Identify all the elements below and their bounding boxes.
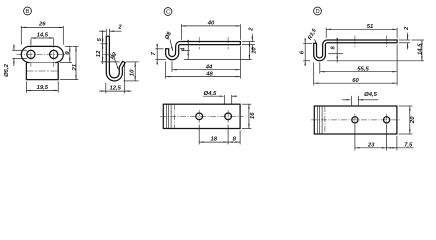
D dim 23 (355, 147, 387, 149)
C plan bend tangent line (173, 104, 175, 128)
B front hole centerline right (53, 42, 55, 67)
C dim 7 extension lines (155, 48, 163, 50)
svg-text:14,5: 14,5 (417, 43, 423, 55)
B front hole right (50, 50, 58, 58)
svg-text:26: 26 (38, 22, 46, 28)
svg-text:7,5: 7,5 (404, 142, 413, 148)
svg-text:10: 10 (129, 69, 135, 76)
D plan bend tangent line (324, 106, 326, 134)
C plan outline (163, 104, 240, 128)
B dim 26 extension lines (20, 26, 22, 45)
C dim 40 extension lines (181, 24, 183, 40)
C side hole centerline left (198, 37, 200, 49)
C plan hole right (225, 113, 232, 120)
svg-text:D: D (315, 9, 319, 15)
C plan hole left (196, 113, 203, 120)
D plan centerline (311, 119, 400, 121)
B front horizontal centerline (17, 53, 69, 55)
B front hole centerline left (30, 42, 32, 67)
D dim 55.5 (320, 71, 397, 73)
D dim 20 (409, 106, 411, 134)
D dim 6 (304, 43, 306, 61)
B front hole left (27, 50, 35, 58)
svg-text:B: B (26, 9, 30, 15)
svg-text:20: 20 (410, 116, 416, 124)
D dim 60 extension line (313, 62, 315, 85)
D side hole centerline left (354, 36, 356, 47)
D label O4.5 (342, 99, 348, 101)
B dim 19.5 extension lines (25, 81, 27, 92)
svg-text:Ø4,5: Ø4,5 (364, 92, 377, 98)
C dim 16 (248, 104, 250, 128)
C dim 2 extension lines (242, 41, 255, 43)
B dim O5.2 tangent lines (12, 49, 26, 51)
svg-text:C: C (166, 10, 170, 16)
D plan hole left (352, 117, 358, 123)
B dim 14.5 extension lines (30, 39, 32, 45)
svg-text:21: 21 (72, 64, 78, 72)
B side dim 2 extension lines (105, 29, 107, 35)
svg-text:16: 16 (250, 112, 256, 119)
C plan bend lines (165, 104, 167, 128)
svg-text:2: 2 (248, 27, 254, 32)
C dim 48 extension line (165, 61, 167, 78)
B side ext line tip (101, 61, 120, 63)
svg-text:44: 44 (205, 64, 213, 70)
D dim 60 (314, 82, 397, 84)
svg-text:60: 60 (352, 78, 359, 84)
svg-text:12: 12 (96, 50, 102, 57)
view label D (314, 7, 322, 15)
C dim 18 8 extension lines (198, 125, 200, 145)
B side hole centerline (103, 53, 113, 55)
svg-text:12,5: 12,5 (109, 85, 121, 91)
D dim 51 (326, 28, 397, 30)
C dim 8 (228, 141, 240, 143)
C side hole centerline right (227, 37, 229, 49)
D dim 2 extension lines (399, 39, 410, 41)
B side dim 12.5 extension lines (105, 83, 107, 93)
D dim 14.5 (421, 40, 423, 61)
D dim 2 (407, 33, 409, 40)
D side profile (314, 40, 397, 61)
svg-text:10: 10 (251, 47, 257, 54)
svg-text:23: 23 (367, 142, 375, 148)
C dim 4 tick (181, 50, 190, 52)
svg-text:4: 4 (181, 48, 187, 52)
C dim 4 (187, 40, 189, 59)
svg-text:19,5: 19,5 (37, 85, 49, 91)
B side dim 5 and 12 line (102, 32, 104, 65)
svg-text:55,5: 55,5 (357, 66, 369, 72)
svg-text:Ø5,2: Ø5,2 (4, 63, 10, 76)
view label B (24, 7, 32, 15)
D dim 6 extension lines (303, 42, 312, 44)
C dim 2 (251, 34, 253, 42)
B side dim 12.5 (106, 90, 125, 92)
C dim 48 (166, 76, 241, 78)
svg-text:48: 48 (205, 71, 213, 77)
D side hook bottom ext (327, 60, 424, 62)
B dim 9 (69, 46, 71, 62)
D plan hole right (384, 117, 390, 123)
D plan bend lines (316, 106, 318, 134)
B side dim 10 extension lines (126, 61, 138, 63)
svg-text:40: 40 (207, 20, 215, 26)
view label C (164, 8, 172, 16)
B side ext line at 5 (101, 43, 108, 45)
B front plate outline (21, 46, 63, 62)
C plan centerline (160, 115, 243, 117)
D dim 51 extension lines (325, 28, 327, 38)
svg-text:14,5: 14,5 (37, 33, 49, 39)
C dim 18 (199, 141, 228, 143)
D dim 14.5 top ext (412, 39, 425, 41)
C dim 16 extension lines (242, 103, 251, 105)
B dim 26 (21, 26, 63, 28)
svg-text:2: 2 (404, 26, 410, 31)
C dim 10 (248, 42, 250, 60)
D dim 8 (336, 38, 338, 63)
C dim 40 (182, 25, 241, 27)
B dim 14.5 (31, 37, 54, 39)
C side hook bottom ext (184, 59, 252, 61)
C dim 44 extension lines (171, 61, 173, 71)
B side dim 10 (134, 62, 136, 81)
D dim 55.5 right ext (396, 44, 398, 85)
D dim 20 extension lines (399, 105, 413, 107)
C dim 44 (172, 69, 240, 71)
B dim 21 (75, 46, 77, 79)
D dim 55.5 extension line (319, 62, 321, 73)
D plan hole centerlines (354, 114, 356, 127)
B dim 9 extension lines (65, 45, 72, 47)
svg-text:51: 51 (367, 24, 374, 30)
C plan hole centerlines (198, 110, 200, 123)
D dim 8 tick (328, 53, 343, 55)
B front lower body (26, 63, 58, 80)
D side hole centerline right (386, 36, 388, 47)
D plan outline (314, 106, 397, 134)
B side dim 2 (99, 30, 106, 32)
B front plate bend line (26, 62, 58, 64)
D dim 23 7.5 extension lines (354, 125, 356, 150)
C dim 7 (156, 49, 158, 60)
B dim 21 extension lines (73, 45, 79, 47)
D dim 7.5 (387, 147, 397, 149)
svg-text:18: 18 (211, 137, 218, 143)
B side profile (106, 36, 125, 81)
B front hidden bend line (26, 70, 58, 72)
B dim O5.2 arrows (13, 44, 15, 50)
svg-text:2: 2 (117, 25, 122, 31)
C side profile (166, 42, 241, 60)
B dim 19.5 (26, 89, 58, 91)
